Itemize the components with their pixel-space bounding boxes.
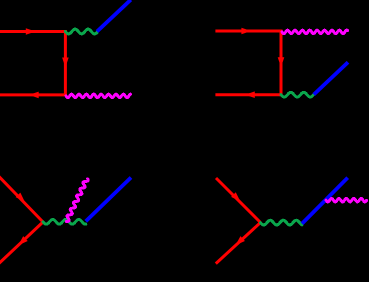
gluon g1: green wavy line from upper vertex bbox=[65, 29, 97, 34]
wire: internal quark propagator (vertical) bbox=[64, 30, 67, 96]
photon: magenta wavy line from lower vertex bbox=[66, 94, 131, 98]
arrow on internal propagator (pointing down) bbox=[278, 57, 285, 67]
wire: incoming quark line (upper-left diagonal) bbox=[216, 178, 261, 223]
arrow on antiquark line (pointing left) bbox=[245, 91, 255, 98]
gluon g2: green wavy line from lower vertex bbox=[281, 92, 314, 97]
Z boson: blue straight line upper right bbox=[86, 178, 131, 222]
Z boson: blue straight line lower right bbox=[314, 62, 348, 94]
Z boson: blue straight line upper right bbox=[302, 178, 348, 224]
wire: incoming antiquark line (bottom-left horizontal) bbox=[0, 93, 65, 96]
wire: incoming quark line (top-left horizontal) bbox=[0, 30, 65, 33]
arrow on antiquark line (pointing down-left) bbox=[235, 236, 244, 245]
arrow on antiquark line (pointing left) bbox=[29, 92, 39, 99]
arrow on incoming quark (pointing down-right) bbox=[16, 193, 25, 202]
wire: incoming quark line (upper-left diagonal) bbox=[0, 177, 43, 223]
gluon g4: green wavy propagator bbox=[261, 220, 303, 225]
arrow on internal propagator (pointing down) bbox=[62, 58, 69, 68]
photon: magenta wavy line radiated upward bbox=[67, 179, 89, 222]
arrow on antiquark line (pointing down-left) bbox=[18, 236, 27, 245]
arrow on incoming quark (pointing right) bbox=[26, 28, 36, 35]
wire: internal quark propagator (vertical) bbox=[280, 30, 283, 97]
photon: magenta wavy line from upper vertex bbox=[282, 30, 348, 33]
arrow on incoming quark (pointing down-right) bbox=[231, 192, 240, 201]
wire: incoming quark line (top horizontal) bbox=[215, 30, 281, 33]
wire: incoming antiquark line (lower-left diagonal) bbox=[0, 222, 43, 263]
Z boson: blue straight line upper right bbox=[97, 0, 131, 31]
gluon g3: green wavy propagator bbox=[43, 219, 86, 224]
photon: magenta wavy line radiated to the right bbox=[326, 198, 367, 202]
wire: incoming antiquark line (bottom horizontal) bbox=[215, 93, 281, 96]
wire: incoming antiquark line (lower-left diagonal) bbox=[216, 223, 261, 264]
arrow on incoming quark (pointing right) bbox=[241, 28, 251, 35]
